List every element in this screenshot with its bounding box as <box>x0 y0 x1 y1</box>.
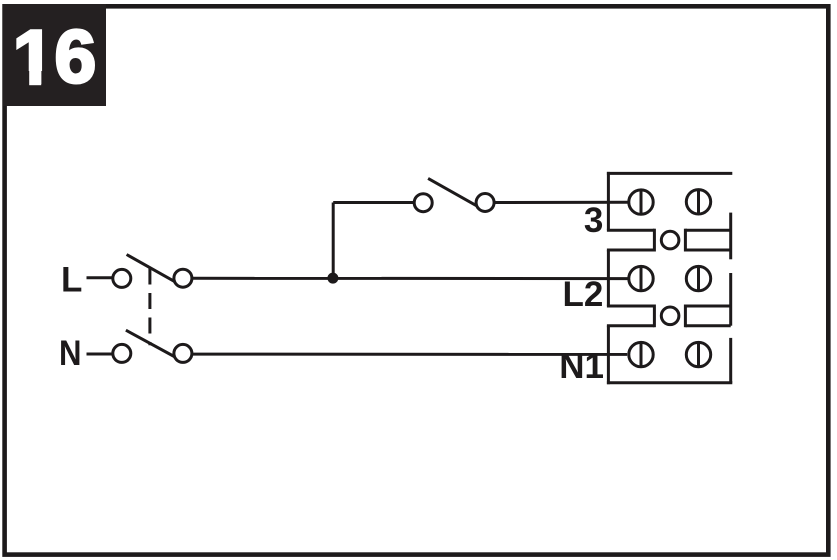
svg-text:3: 3 <box>584 201 603 240</box>
svg-text:N: N <box>59 334 82 373</box>
svg-text:N1: N1 <box>559 347 604 386</box>
svg-text:L2: L2 <box>562 275 603 314</box>
svg-text:L: L <box>61 260 82 299</box>
